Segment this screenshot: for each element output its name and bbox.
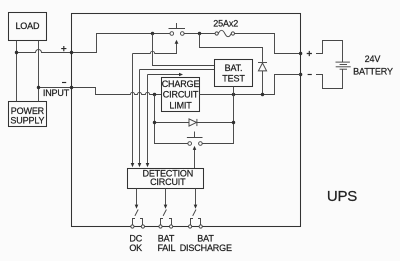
- LOAD box: [9, 13, 47, 41]
- label - input: [62, 82, 66, 84]
- node plus bus crosses enclosure: [70, 51, 73, 54]
- node bat test on minus line: [232, 93, 235, 96]
- label + battery: [307, 51, 312, 56]
- svg-text:BATTERY: BATTERY: [353, 66, 393, 76]
- svg-text:TEST: TEST: [222, 74, 245, 84]
- wire bat test bottom vertical: [202, 87, 233, 144]
- relay contact K1 DC OK: [131, 210, 145, 229]
- wire plus bus switch to fuse: [184, 33, 215, 35]
- svg-text:OK: OK: [129, 243, 142, 253]
- svg-text:BAT.: BAT.: [225, 63, 243, 73]
- node fuse branch: [198, 32, 201, 35]
- sense wire 4 up arrow to S2: [193, 146, 197, 169]
- svg-text:CIRCUIT: CIRCUIT: [150, 177, 186, 187]
- sense wire 2 to bat test: [138, 70, 215, 168]
- wire left vertical minus tap: [155, 95, 188, 144]
- svg-text:SUPPLY: SUPPLY: [10, 116, 44, 126]
- svg-text:LIMIT: LIMIT: [169, 100, 192, 110]
- wire fuse branch to diode D2: [200, 34, 263, 62]
- node battery plus on enclosure: [299, 52, 302, 55]
- svg-text:FAIL: FAIL: [157, 243, 175, 253]
- svg-text:UPS: UPS: [327, 188, 357, 205]
- node detection tap on minus line: [153, 93, 156, 96]
- node input minus on right load wire: [37, 86, 40, 89]
- diode D1: [155, 119, 234, 126]
- diode D2: [258, 63, 267, 95]
- relay contact K2 BAT FAIL: [159, 210, 173, 229]
- wire load-left to power supply: [16, 41, 18, 102]
- node input plus on left load wire: [15, 51, 18, 54]
- relay contact K3 BAT DISCHARGE: [189, 210, 203, 229]
- detection output 3 arrow: [194, 189, 198, 209]
- wire battery minus: [316, 69, 343, 88]
- node diode branch right: [232, 121, 235, 124]
- DETECTION CIRCUIT box U4: [128, 168, 204, 188]
- svg-text:DC: DC: [129, 234, 142, 244]
- svg-text:24V: 24V: [365, 54, 381, 64]
- svg-text:CIRCUIT: CIRCUIT: [163, 90, 199, 100]
- sense wire 3 charge arrow: [146, 73, 183, 168]
- svg-text:BAT: BAT: [197, 234, 214, 244]
- label 24V BATTERY: [353, 54, 393, 76]
- label BAT FAIL: [157, 234, 175, 254]
- sense wire 1 to switch with up arrow: [131, 40, 179, 167]
- wire load-right to power supply: [38, 41, 40, 102]
- detection output 2 arrow: [164, 189, 168, 209]
- svg-text:LOAD: LOAD: [15, 21, 40, 31]
- label - battery: [308, 74, 312, 76]
- fuse F1 25Ax2: [213, 19, 238, 37]
- node diode branch left: [153, 121, 156, 124]
- plus input bus wire with hop over right load wire: [17, 34, 171, 53]
- svg-text:DISCHARGE: DISCHARGE: [180, 243, 232, 253]
- label DC OK: [129, 234, 142, 254]
- wire switch branch to bat test: [153, 34, 215, 66]
- wire battery plus: [316, 41, 343, 63]
- node diode D2 on minus line: [261, 93, 264, 96]
- node switch branch: [151, 32, 154, 35]
- label + input: [61, 46, 66, 51]
- POWER SUPPLY box: [9, 102, 47, 127]
- svg-text:CHARGE: CHARGE: [162, 79, 200, 89]
- svg-text:INPUT: INPUT: [43, 88, 70, 98]
- UPS enclosure box: [72, 14, 301, 227]
- minus input bus wire with hops over detection sense wires: [39, 88, 162, 95]
- node minus bus crosses enclosure: [70, 86, 73, 89]
- wire minus line charge to battery minus: [200, 75, 301, 95]
- battery B1 24V plates: [336, 62, 351, 69]
- wire fuse to battery plus node: [235, 34, 301, 54]
- BAT TEST box U3: [215, 60, 253, 87]
- svg-text:POWER: POWER: [11, 106, 45, 116]
- CHARGE CIRCUIT LIMIT box U2: [162, 78, 200, 112]
- svg-text:BAT: BAT: [158, 234, 175, 244]
- node battery minus on enclosure: [299, 73, 302, 76]
- label BAT DISCHARGE: [180, 234, 232, 254]
- pushbutton S2 discharge test: [187, 132, 203, 146]
- svg-text:25Ax2: 25Ax2: [213, 19, 238, 29]
- detection output 1 arrow: [135, 189, 139, 209]
- pushbutton S1 on plus bus: [169, 23, 186, 35]
